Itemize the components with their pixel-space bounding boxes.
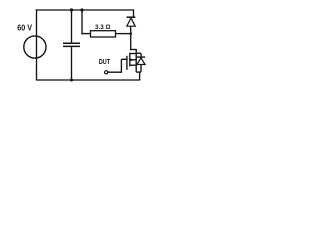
wire resistor to node A [116, 33, 131, 35]
wire resistor branch vertical [81, 10, 83, 34]
body diode cathode bar [137, 56, 145, 58]
wire into resistor [81, 33, 90, 35]
wire drain jog [130, 49, 136, 51]
svg-text:60 V: 60 V [17, 24, 32, 33]
transistor Q1 channel bar [129, 53, 131, 67]
capacitor C1 top plate [63, 42, 80, 44]
svg-text:3.3 Ω: 3.3 Ω [95, 24, 111, 31]
body diode triangle [137, 58, 145, 65]
capacitor C1 bottom plate [63, 45, 80, 47]
junction dot node A [129, 32, 132, 35]
diode D1 cathode bar [127, 16, 136, 18]
svg-text:DUT: DUT [99, 59, 111, 66]
wire top rail [36, 9, 134, 11]
junction dot resistor top [80, 8, 83, 11]
voltage source V1 circle [24, 36, 46, 58]
wire down leg to bottom rail [139, 72, 141, 80]
junction dot cap top [70, 8, 73, 11]
capacitor C1 top lead [71, 10, 73, 43]
transistor Q1 gate bar [126, 56, 128, 70]
body diode anode lead [140, 65, 142, 73]
wire left branch [36, 9, 38, 80]
diode D1 anode lead / wire to node A [130, 26, 132, 49]
capacitor C1 bottom lead [71, 47, 73, 80]
gate terminal circle [105, 71, 108, 74]
transistor Q1 body stub [130, 59, 136, 61]
transistor Q1 source stub [130, 64, 136, 66]
resistor R1 3.3 ohm body [91, 31, 116, 37]
junction dot body stub [130, 59, 132, 61]
wire bottom rail [36, 79, 140, 81]
gate terminal wire [108, 59, 128, 72]
transistor Q1 DUT drain-source vertical [135, 49, 137, 72]
wire top rail right stub to diode cathode [133, 9, 135, 17]
wire source bottom tie [136, 71, 141, 73]
junction dot cap bottom [70, 79, 73, 82]
diode D1 triangle [127, 18, 135, 26]
transistor Q1 top stub [130, 53, 136, 55]
body diode cathode tie [136, 53, 141, 57]
